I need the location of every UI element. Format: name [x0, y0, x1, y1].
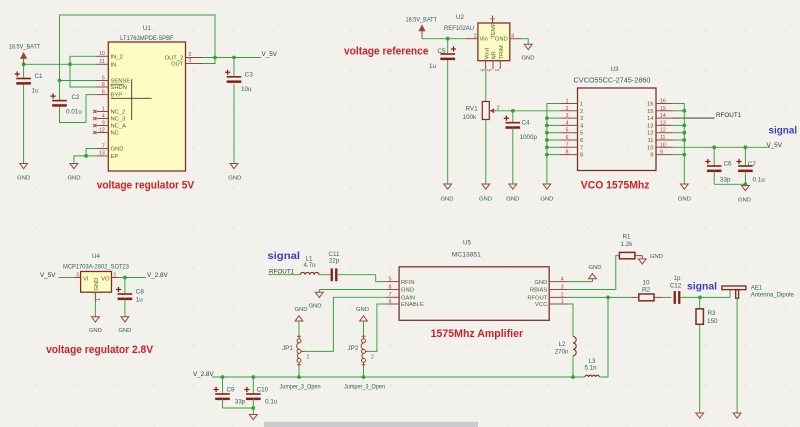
- svg-text:C2: C2: [72, 94, 81, 101]
- svg-text:10: 10: [660, 142, 666, 148]
- svg-text:JP1: JP1: [282, 345, 293, 352]
- svg-text:Antenna_Dipole: Antenna_Dipole: [751, 292, 795, 298]
- svg-text:1: 1: [102, 106, 105, 112]
- svg-text:9: 9: [102, 120, 105, 126]
- svg-text:GND: GND: [678, 197, 691, 203]
- svg-text:GND: GND: [228, 175, 241, 181]
- svg-text:CVCO55CC-2745-2860: CVCO55CC-2745-2860: [574, 77, 651, 84]
- svg-text:3: 3: [580, 116, 583, 122]
- svg-text:3: 3: [491, 18, 497, 21]
- svg-text:GND: GND: [738, 198, 751, 204]
- svg-text:GND: GND: [401, 288, 414, 294]
- svg-text:C12: C12: [670, 283, 682, 290]
- svg-text:C7: C7: [748, 161, 757, 168]
- svg-text:13: 13: [647, 123, 653, 129]
- svg-text:7: 7: [580, 145, 583, 151]
- svg-text:14: 14: [660, 113, 666, 119]
- svg-text:IN: IN: [111, 62, 117, 68]
- svg-text:NC_2: NC_2: [111, 110, 126, 116]
- svg-text:11: 11: [660, 135, 665, 141]
- svg-text:5: 5: [389, 276, 392, 282]
- svg-text:U3: U3: [611, 66, 620, 73]
- svg-text:GND: GND: [521, 55, 534, 61]
- svg-text:5: 5: [102, 75, 105, 81]
- svg-text:100k: 100k: [463, 114, 478, 121]
- svg-text:VCO 1575Mhz: VCO 1575Mhz: [581, 179, 650, 191]
- svg-text:18.5V_BATT: 18.5V_BATT: [9, 44, 41, 51]
- svg-text:RFOUT1: RFOUT1: [716, 112, 742, 119]
- svg-text:6: 6: [389, 299, 392, 305]
- svg-text:1: 1: [561, 299, 564, 305]
- svg-text:9: 9: [660, 150, 663, 156]
- svg-text:2: 2: [580, 109, 583, 115]
- svg-text:OUT: OUT: [171, 62, 184, 68]
- svg-text:BYP: BYP: [111, 93, 123, 99]
- svg-text:GND: GND: [506, 197, 519, 203]
- svg-text:10: 10: [647, 145, 653, 151]
- svg-text:12: 12: [660, 128, 666, 134]
- svg-text:7: 7: [566, 142, 569, 148]
- svg-text:150: 150: [707, 318, 718, 325]
- svg-text:MC13851: MC13851: [452, 251, 482, 258]
- svg-text:33p: 33p: [720, 176, 731, 183]
- svg-text:voltage regulator 2.8V: voltage regulator 2.8V: [46, 344, 154, 356]
- svg-text:GND: GND: [67, 175, 80, 181]
- svg-text:16: 16: [647, 102, 653, 108]
- svg-text:2: 2: [474, 33, 477, 39]
- svg-text:GND: GND: [294, 307, 307, 313]
- svg-text:signal: signal: [687, 281, 717, 293]
- svg-text:10: 10: [99, 51, 105, 57]
- svg-text:8: 8: [566, 150, 569, 156]
- svg-text:1: 1: [580, 102, 583, 108]
- svg-text:RFOUT: RFOUT: [527, 296, 547, 302]
- svg-text:3: 3: [189, 58, 192, 64]
- svg-text:V_5V: V_5V: [767, 142, 783, 149]
- svg-text:1.2k: 1.2k: [621, 241, 634, 248]
- svg-text:4: 4: [102, 113, 105, 119]
- svg-text:5.1n: 5.1n: [585, 364, 598, 371]
- svg-text:C4: C4: [522, 119, 531, 126]
- svg-text:C3: C3: [245, 72, 254, 79]
- svg-text:4: 4: [566, 120, 569, 126]
- svg-text:GND: GND: [94, 278, 100, 291]
- svg-text:SENSE: SENSE: [111, 79, 131, 85]
- svg-text:V_2.8V: V_2.8V: [193, 371, 214, 378]
- svg-text:4.7n: 4.7n: [303, 262, 316, 269]
- svg-text:6: 6: [580, 138, 583, 144]
- svg-text:12: 12: [647, 131, 653, 137]
- svg-text:RBIAS: RBIAS: [530, 288, 548, 294]
- svg-text:MCP1703A-2802_SOT23: MCP1703A-2802_SOT23: [63, 265, 130, 271]
- svg-text:270n: 270n: [555, 348, 569, 355]
- svg-text:Jumper_3_Open: Jumper_3_Open: [344, 383, 385, 390]
- svg-text:EP: EP: [111, 154, 119, 160]
- svg-text:VO: VO: [101, 277, 110, 283]
- svg-text:VCC: VCC: [535, 302, 547, 308]
- svg-text:2: 2: [561, 292, 564, 298]
- svg-text:13: 13: [99, 151, 105, 157]
- svg-text:9: 9: [650, 153, 653, 159]
- svg-text:5: 5: [488, 69, 494, 72]
- svg-text:V_5V: V_5V: [262, 51, 278, 58]
- svg-text:GND: GND: [118, 328, 131, 334]
- svg-text:33p: 33p: [235, 398, 246, 405]
- svg-text:RV1: RV1: [466, 105, 479, 112]
- svg-text:JP2: JP2: [348, 345, 359, 352]
- svg-text:GND: GND: [650, 254, 663, 260]
- svg-text:TRIM: TRIM: [499, 45, 505, 59]
- svg-text:V_2.8V: V_2.8V: [147, 272, 168, 279]
- svg-text:2: 2: [371, 355, 374, 361]
- svg-text:8: 8: [580, 153, 583, 159]
- svg-text:U2: U2: [456, 14, 465, 21]
- svg-text:1u: 1u: [429, 63, 437, 70]
- svg-text:AE1: AE1: [751, 285, 763, 291]
- svg-text:GND: GND: [17, 175, 30, 181]
- svg-text:R2: R2: [642, 286, 651, 293]
- svg-text:signal: signal: [267, 250, 300, 262]
- svg-text:0.1u: 0.1u: [265, 398, 278, 405]
- svg-text:6: 6: [566, 135, 569, 141]
- svg-text:U1: U1: [143, 25, 152, 32]
- svg-text:voltage reference: voltage reference: [344, 45, 429, 57]
- svg-text:C8: C8: [136, 289, 145, 296]
- svg-text:1575Mhz Amplifier: 1575Mhz Amplifier: [431, 328, 524, 340]
- svg-text:Vin: Vin: [480, 37, 488, 43]
- svg-text:1u: 1u: [136, 297, 144, 304]
- svg-text:TEMP: TEMP: [491, 22, 497, 38]
- svg-text:4: 4: [561, 277, 564, 283]
- svg-text:R3: R3: [708, 310, 717, 317]
- svg-text:GAIN: GAIN: [401, 296, 415, 302]
- svg-text:GND: GND: [588, 265, 601, 271]
- svg-text:GND: GND: [308, 303, 321, 309]
- svg-text:VI: VI: [83, 277, 89, 283]
- svg-text:U4: U4: [92, 253, 101, 260]
- svg-text:13: 13: [660, 120, 666, 126]
- svg-text:Jumper_3_Open: Jumper_3_Open: [280, 383, 321, 390]
- svg-text:SHDN: SHDN: [111, 85, 127, 91]
- svg-text:C5: C5: [438, 48, 447, 55]
- svg-text:GND: GND: [540, 197, 553, 203]
- svg-text:22p: 22p: [329, 257, 340, 264]
- svg-text:NC_3: NC_3: [111, 117, 126, 123]
- svg-text:7: 7: [389, 292, 392, 298]
- svg-text:8: 8: [389, 284, 392, 290]
- svg-text:GND: GND: [356, 307, 369, 313]
- svg-text:3: 3: [76, 272, 79, 278]
- svg-text:4: 4: [511, 33, 514, 39]
- svg-text:2: 2: [566, 106, 569, 112]
- svg-text:L2: L2: [559, 341, 566, 348]
- svg-text:signal: signal: [769, 124, 798, 136]
- svg-text:11: 11: [647, 138, 653, 144]
- svg-text:GND: GND: [479, 197, 492, 203]
- svg-text:8: 8: [102, 82, 105, 88]
- svg-text:GND: GND: [534, 280, 547, 286]
- svg-text:2: 2: [113, 272, 116, 278]
- svg-text:15: 15: [660, 106, 666, 112]
- svg-text:GND: GND: [89, 328, 102, 334]
- svg-text:18.5V_BATT: 18.5V_BATT: [406, 16, 438, 23]
- svg-text:16: 16: [660, 99, 666, 105]
- svg-text:5: 5: [566, 128, 569, 134]
- svg-text:5: 5: [580, 131, 583, 137]
- svg-text:1: 1: [566, 99, 569, 105]
- svg-text:3: 3: [566, 113, 569, 119]
- svg-text:1p: 1p: [674, 275, 681, 282]
- svg-text:C9: C9: [227, 387, 236, 394]
- svg-text:GND: GND: [111, 147, 124, 153]
- svg-text:Vout: Vout: [484, 48, 490, 60]
- svg-text:2: 2: [307, 355, 310, 361]
- svg-text:0.01u: 0.01u: [66, 109, 82, 116]
- svg-text:1: 1: [96, 298, 102, 301]
- svg-text:voltage regulator 5V: voltage regulator 5V: [97, 179, 195, 191]
- svg-text:NR: NR: [492, 51, 498, 59]
- svg-text:14: 14: [647, 116, 654, 122]
- svg-text:IN_2: IN_2: [111, 54, 123, 60]
- svg-text:C1: C1: [35, 73, 44, 80]
- svg-text:0.1u: 0.1u: [753, 176, 766, 183]
- svg-text:C10: C10: [257, 387, 269, 394]
- svg-text:R1: R1: [622, 233, 631, 240]
- svg-text:ENABLE: ENABLE: [401, 302, 424, 308]
- svg-text:6: 6: [102, 89, 105, 95]
- svg-text:NC_A: NC_A: [111, 124, 127, 130]
- svg-text:GND: GND: [440, 197, 453, 203]
- svg-text:REF102AU: REF102AU: [444, 25, 474, 32]
- svg-text:11: 11: [99, 59, 104, 65]
- svg-text:C6: C6: [724, 161, 733, 168]
- svg-text:10u: 10u: [241, 86, 252, 93]
- svg-text:LT1763MPDE-5PBF: LT1763MPDE-5PBF: [120, 35, 174, 42]
- svg-text:12: 12: [99, 127, 105, 133]
- svg-text:V_5V: V_5V: [40, 272, 56, 279]
- svg-text:7: 7: [102, 143, 105, 149]
- svg-text:U5: U5: [463, 239, 472, 246]
- svg-text:1: 1: [495, 69, 501, 72]
- svg-text:RFIN: RFIN: [401, 280, 415, 286]
- svg-text:3: 3: [561, 285, 564, 291]
- svg-text:15: 15: [647, 109, 653, 115]
- svg-text:1u: 1u: [32, 88, 40, 95]
- svg-text:1000p: 1000p: [520, 134, 538, 141]
- svg-text:NC: NC: [111, 131, 119, 137]
